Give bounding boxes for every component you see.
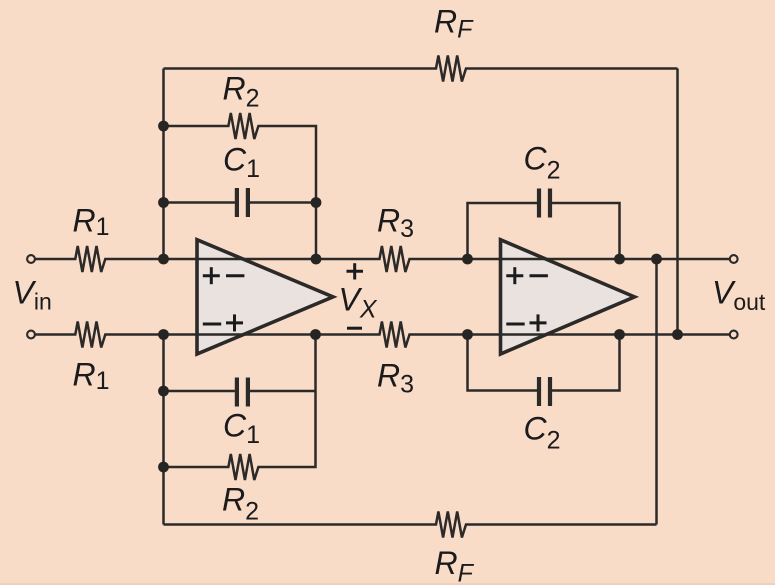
node: stage1 vertical / top input row <box>311 254 322 265</box>
terminal Vin- <box>27 331 35 339</box>
node: stage1 vertical / bottom input row <box>310 329 321 340</box>
op-amp U1 output polarity - (top) <box>226 274 244 277</box>
node: feedback tap / top input row <box>651 254 662 265</box>
op-amp U1 input polarity - (bottom) <box>203 323 221 326</box>
op-amp U2 output polarity - (top) <box>530 274 548 277</box>
capacitor C2 (top) plates <box>537 189 541 218</box>
wire bottom feedback with resistor RF (bottom) <box>164 512 657 538</box>
terminal Vout- <box>730 331 738 339</box>
node: left vertical / top input row <box>158 254 169 265</box>
node: left vertical / R2 bottom row <box>158 462 169 473</box>
wire left vertical (bottom input row down to bottom RF) <box>162 335 165 525</box>
capacitor C1 (bottom) plates <box>235 378 239 407</box>
node: left vertical / R2 top row <box>158 121 169 132</box>
op-amp U2 input polarity - (bottom) <box>506 323 524 326</box>
node: left vertical / bottom input row <box>158 329 169 340</box>
wire R2 top branch with resistor R2 (top) <box>164 113 317 259</box>
wire R2 bottom branch with resistor R2 (bottom) <box>164 335 316 481</box>
node: left vertical / C1 bottom row <box>158 386 169 397</box>
op-amp U1 input polarity + (top) <box>203 274 220 277</box>
node: stage1 vertical / C1 top row <box>311 197 322 208</box>
wire right vertical (top input row down to bottom RF) <box>655 259 658 525</box>
node: C2 right tap / bottom input row <box>614 329 625 340</box>
wire C1 top branch left segment <box>164 201 235 204</box>
op-amp U2 input polarity + (top) <box>506 274 523 277</box>
op-amp U2 output polarity + (bottom) <box>530 321 547 324</box>
wire C2 bottom branch left segment <box>468 335 538 391</box>
node VX polarity - <box>347 327 362 330</box>
wire C2 bottom branch right segment <box>552 335 620 391</box>
wire C1 bottom branch left segment <box>164 390 235 393</box>
terminal Vout+ <box>730 255 738 263</box>
node VX polarity + <box>347 270 364 273</box>
bottom edge strip <box>0 583 775 585</box>
wire right vertical (top RF down to bottom row node) <box>676 69 679 335</box>
wire bottom input row with resistors R1 and R3 <box>36 322 730 348</box>
wire left vertical (top RF down to top input row) <box>162 69 165 260</box>
node: C2 left tap / top input row <box>462 254 473 265</box>
op-amp U2 body <box>501 240 635 354</box>
wire C1 top branch right segment <box>250 201 316 204</box>
wire C1 bottom branch right segment <box>250 390 316 393</box>
op-amp U1 body <box>197 240 333 354</box>
terminal Vin+ <box>27 255 35 263</box>
node: left vertical / C1 top row <box>158 197 169 208</box>
node: feedback tap / bottom input row <box>672 329 683 340</box>
capacitor C1 (top) plates <box>235 188 239 217</box>
wire C2 top branch right segment <box>552 203 620 259</box>
wire top feedback with resistor RF (top) <box>164 56 678 82</box>
op-amp U1 output polarity + (bottom) <box>226 321 243 324</box>
wire C2 top branch left segment <box>468 203 538 259</box>
node: C2 left tap / bottom input row <box>462 329 473 340</box>
node: C2 right tap / top input row <box>614 254 625 265</box>
wire top input row with resistors R1 and R3 <box>36 246 730 272</box>
capacitor C2 (bottom) plates <box>537 377 541 406</box>
